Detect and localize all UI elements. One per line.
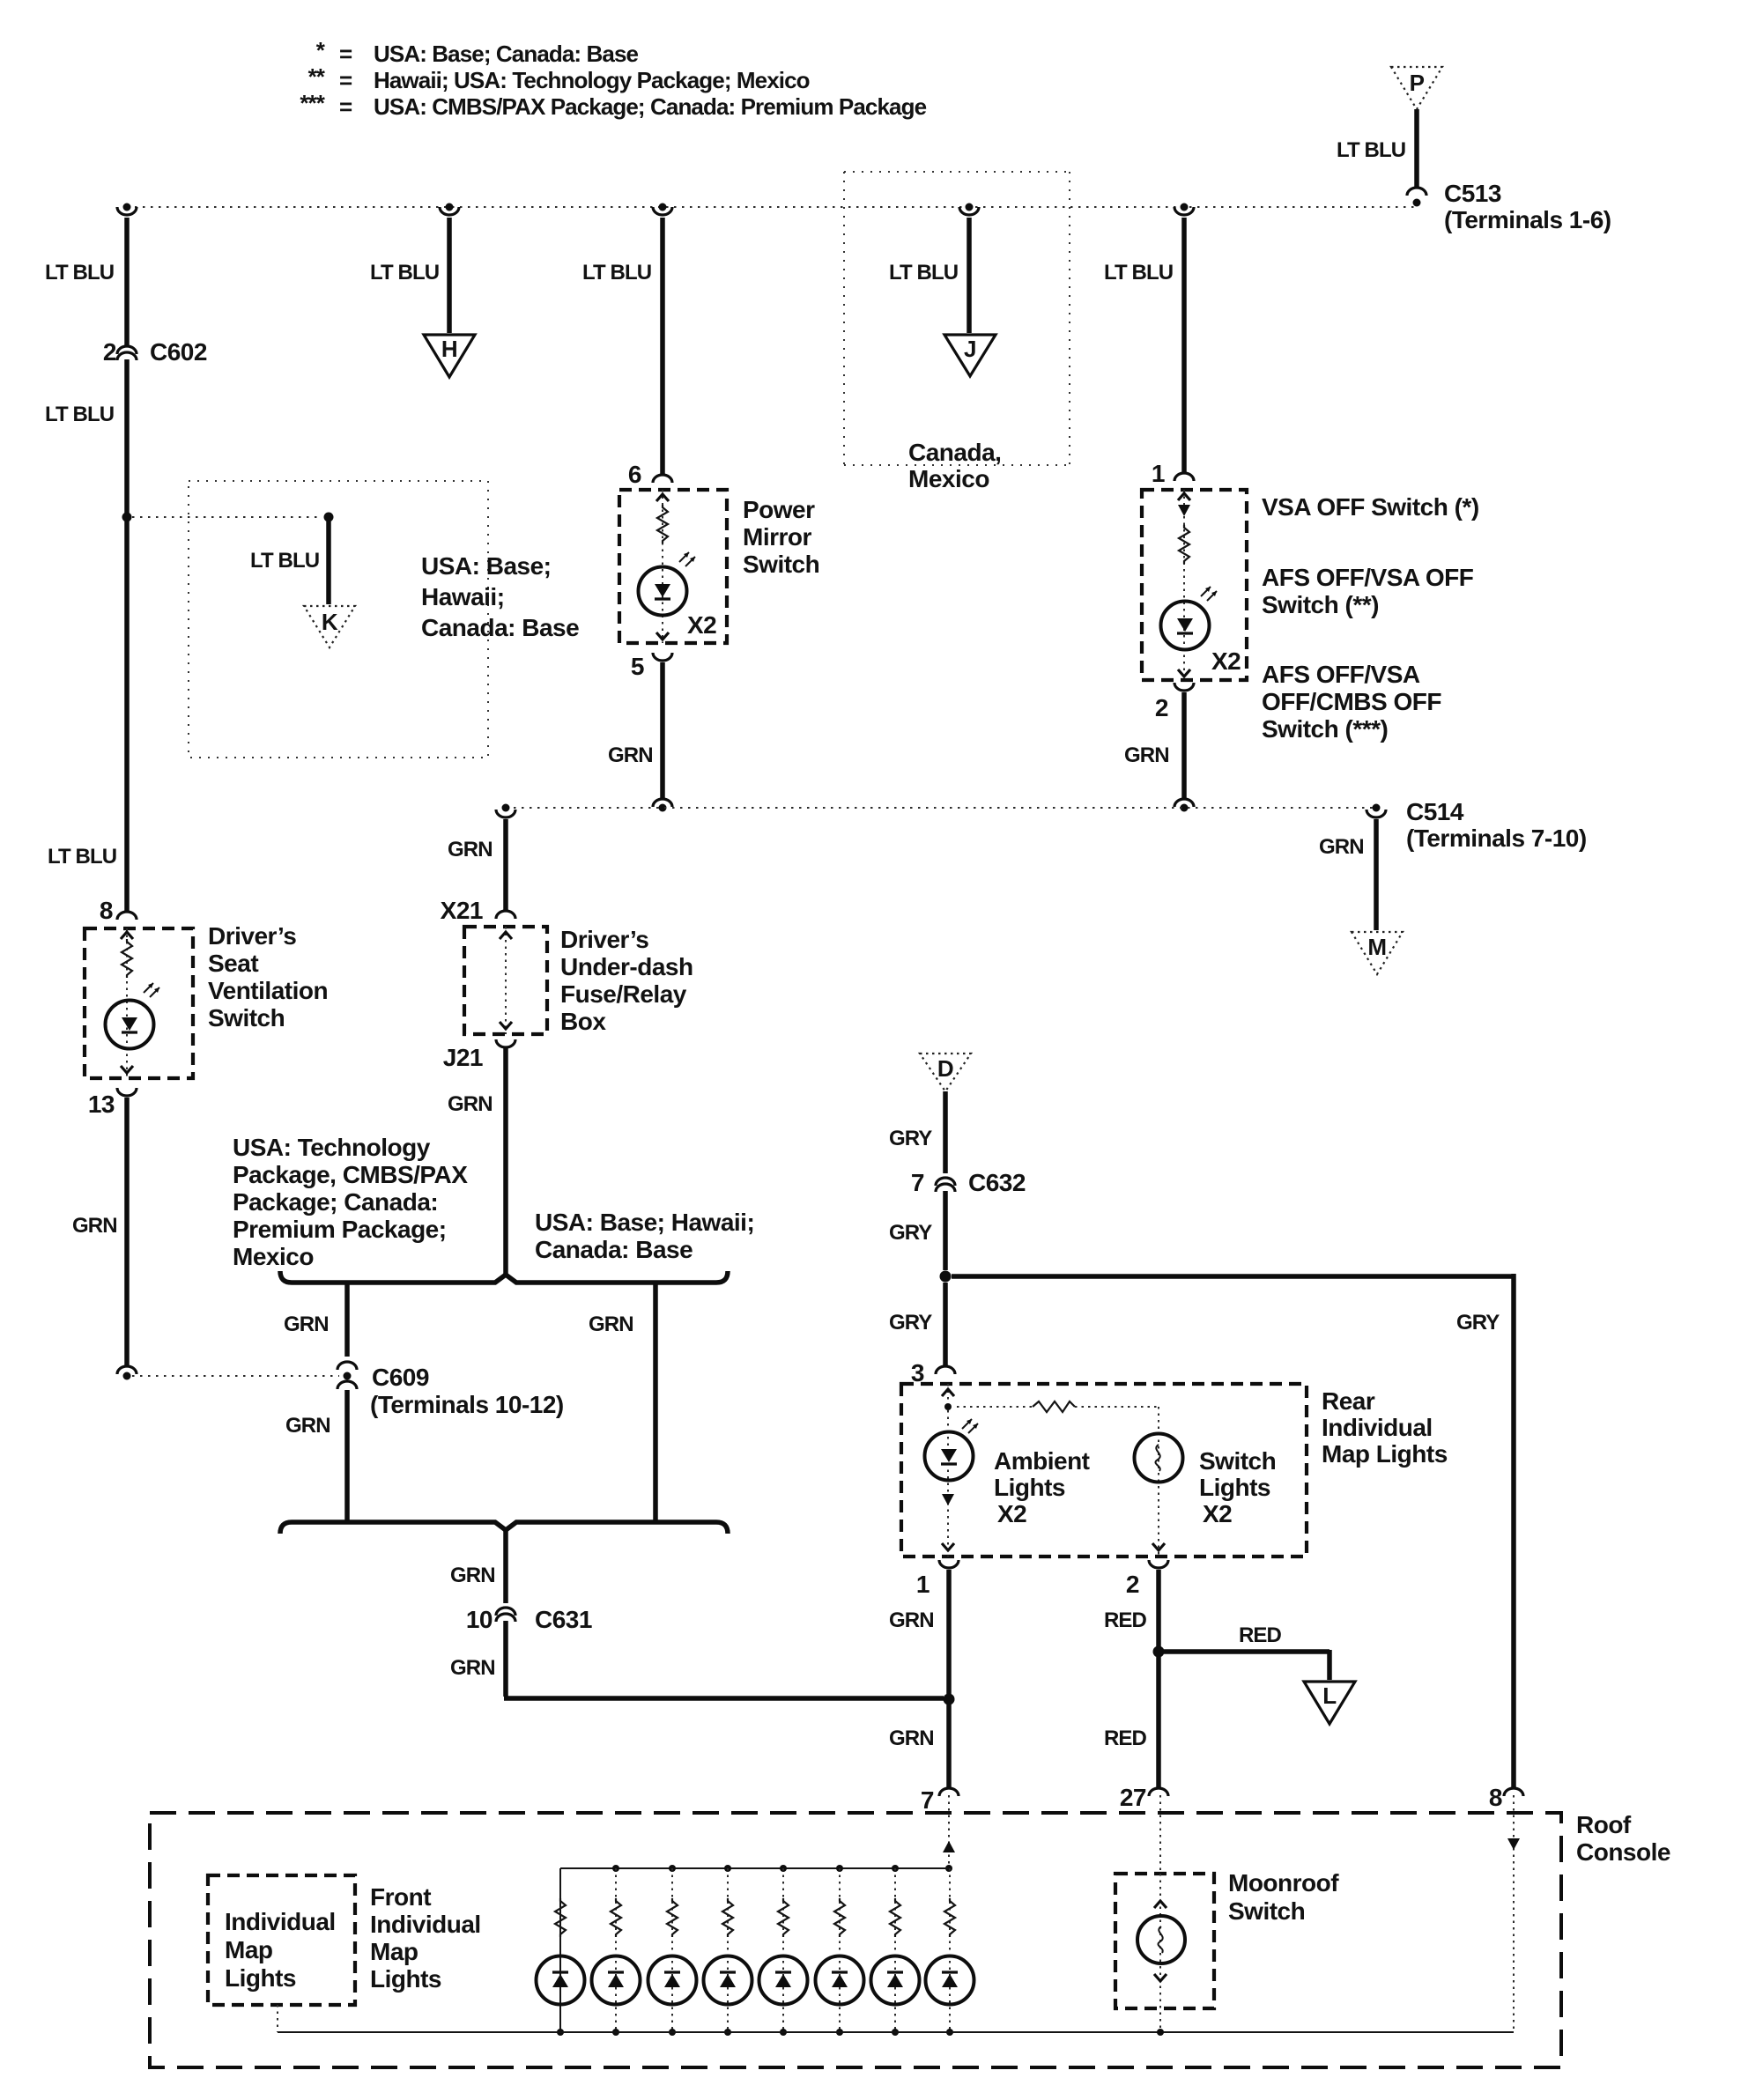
- svg-text:GRN: GRN: [889, 1727, 934, 1750]
- svg-text:AFS OFF/VSA: AFS OFF/VSA: [1262, 661, 1420, 688]
- ground J: [944, 335, 996, 376]
- svg-text:LT BLU: LT BLU: [1104, 261, 1173, 285]
- pin 27 of roof console: [1120, 1784, 1168, 1811]
- svg-text:GRY: GRY: [889, 1311, 932, 1335]
- svg-text:C632: C632: [968, 1169, 1026, 1196]
- svg-text:RED: RED: [1104, 1608, 1147, 1632]
- front map light LED 8 with resistor: [926, 1868, 974, 2036]
- svg-text:Switch: Switch: [1228, 1897, 1305, 1925]
- front map light LED 4 with resistor: [704, 1865, 752, 2036]
- svg-text:GRN: GRN: [72, 1214, 117, 1238]
- svg-text:LT BLU: LT BLU: [45, 403, 114, 426]
- node GRY junction: [940, 1271, 952, 1283]
- svg-text:10: 10: [466, 1606, 493, 1633]
- pin 1 of VSA OFF switch: [1152, 460, 1194, 487]
- svg-text:Package, CMBS/PAX: Package, CMBS/PAX: [233, 1161, 468, 1188]
- svg-text:Ambient: Ambient: [994, 1447, 1090, 1475]
- node tap at C513 terminal for C602 branch: [117, 203, 137, 216]
- svg-text:GRY: GRY: [1456, 1311, 1500, 1335]
- pin 13 of seat ventilation switch: [88, 1088, 137, 1118]
- wire LT BLU to VSA OFF switch pin 1: [1104, 218, 1184, 472]
- svg-text:Canada: Base: Canada: Base: [421, 614, 579, 641]
- option brace top: [280, 1271, 728, 1283]
- front map light LED 5 with resistor: [759, 1865, 808, 2036]
- wire LT BLU to ground J: [889, 218, 969, 333]
- node tap for ground H branch: [440, 203, 459, 216]
- svg-text:Lights: Lights: [370, 1965, 441, 1993]
- label Roof Console: [1576, 1811, 1670, 1866]
- wire LT BLU to power mirror switch pin 6: [582, 218, 663, 474]
- LED array bottom rail: [278, 2031, 1514, 2033]
- connector C632 pin 7: [911, 1169, 1026, 1196]
- svg-text:***: ***: [300, 90, 325, 116]
- wire GRN J21 to option brace: [448, 1047, 506, 1277]
- svg-text:J: J: [964, 336, 976, 362]
- label Ambient Lights X2: [994, 1447, 1090, 1527]
- connector C514 label: [1367, 798, 1587, 852]
- svg-text:Switch: Switch: [743, 551, 819, 578]
- svg-text:6: 6: [628, 461, 641, 488]
- connector tap at C514 bus: [1174, 799, 1194, 812]
- option region USA: Base; Hawaii; Canada: Base (dotted box): [189, 481, 579, 758]
- svg-text:Mexico: Mexico: [233, 1243, 314, 1270]
- svg-text:Mexico: Mexico: [908, 465, 989, 492]
- label Front Individual Map Lights: [370, 1883, 481, 1993]
- ground M: [1352, 932, 1403, 974]
- svg-text:GRN: GRN: [1124, 743, 1169, 767]
- svg-text:LT BLU: LT BLU: [48, 845, 116, 869]
- connector end at C609 link: [117, 1366, 137, 1380]
- front map light LED 7 with resistor: [871, 1865, 920, 2036]
- svg-text:GRY: GRY: [889, 1127, 932, 1150]
- node C514 interconnect dotted bus (terminals 7-10): [506, 807, 1376, 809]
- wire GRN junction to roof console pin 7: [889, 1703, 949, 1787]
- front map light LED 1 with resistor: [537, 1868, 585, 2036]
- svg-text:X2: X2: [1203, 1500, 1232, 1527]
- svg-text:X2: X2: [1211, 647, 1241, 675]
- svg-text:USA: Base; Hawaii;: USA: Base; Hawaii;: [535, 1209, 754, 1236]
- component Moonroof Switch: [1115, 1869, 1339, 2036]
- svg-text:GRN: GRN: [589, 1312, 633, 1336]
- svg-text:Map: Map: [225, 1936, 273, 1963]
- svg-text:GRN: GRN: [1319, 835, 1364, 859]
- node RED junction: [1153, 1646, 1165, 1658]
- svg-text:P: P: [1410, 70, 1425, 96]
- wire GRY ground D to C632: [889, 1091, 945, 1173]
- svg-text:X21: X21: [441, 897, 483, 924]
- option region Canada Mexico (dashed box): [844, 172, 1070, 492]
- svg-text:Driver’s: Driver’s: [560, 926, 648, 953]
- svg-text:Console: Console: [1576, 1838, 1670, 1866]
- pin X21 of under-dash fuse/relay box: [441, 897, 515, 924]
- svg-text:8: 8: [100, 897, 113, 924]
- node tap for ground J branch: [959, 203, 979, 216]
- svg-text:H: H: [441, 336, 457, 362]
- svg-text:Canada: Base: Canada: Base: [535, 1236, 693, 1263]
- svg-text:C514: C514: [1406, 798, 1464, 825]
- svg-text:(Terminals 10-12): (Terminals 10-12): [370, 1391, 564, 1418]
- svg-text:2: 2: [1126, 1571, 1139, 1598]
- svg-text:USA: Base; Canada: Base: USA: Base; Canada: Base: [374, 41, 639, 67]
- svg-text:Lights: Lights: [1199, 1474, 1270, 1501]
- svg-text:GRN: GRN: [450, 1564, 495, 1587]
- connector C602 pin 2: [103, 338, 207, 366]
- connector C609 (terminals 10-12): [337, 1362, 564, 1418]
- svg-text:Premium Package;: Premium Package;: [233, 1216, 447, 1243]
- component Driver's Under-dash Fuse/Relay Box: [464, 926, 693, 1035]
- svg-text:=: =: [339, 41, 352, 67]
- svg-text:D: D: [937, 1055, 953, 1082]
- node tap for power mirror branch: [653, 203, 672, 216]
- wire GRN brace to C631: [450, 1530, 506, 1603]
- svg-text:Individual: Individual: [225, 1908, 336, 1935]
- svg-text:5: 5: [631, 653, 644, 680]
- svg-text:X2: X2: [997, 1500, 1026, 1527]
- svg-text:AFS OFF/VSA OFF: AFS OFF/VSA OFF: [1262, 564, 1474, 591]
- svg-text:2: 2: [103, 338, 116, 366]
- component VSA OFF switch (illumination X2): [1142, 490, 1247, 680]
- label AFS OFF/VSA OFF Switch (**): [1262, 564, 1474, 618]
- wire LT BLU C602 to junction: [45, 359, 127, 514]
- svg-text:**: **: [308, 63, 326, 90]
- svg-text:13: 13: [88, 1091, 115, 1118]
- pin J21 of under-dash fuse/relay box: [443, 1039, 515, 1071]
- svg-text:Lights: Lights: [225, 1964, 296, 1992]
- dotted link to C609: [132, 1375, 339, 1377]
- wire GRN seat switch pin 13 down to C609 dotted link: [72, 1098, 127, 1365]
- svg-text:Driver’s: Driver’s: [208, 922, 296, 950]
- svg-text:Seat: Seat: [208, 950, 258, 977]
- svg-text:Hawaii;: Hawaii;: [421, 583, 505, 610]
- svg-text:Hawaii; USA: Technology Packag: Hawaii; USA: Technology Package; Mexico: [374, 67, 810, 93]
- ground L: [1304, 1682, 1355, 1724]
- svg-text:GRN: GRN: [889, 1608, 934, 1632]
- component Power Mirror Switch (illumination X2): [619, 490, 819, 643]
- wire GRN rear pin 1 to junction: [889, 1570, 949, 1696]
- svg-text:Fuse/Relay: Fuse/Relay: [560, 980, 687, 1008]
- svg-text:VSA OFF Switch (*): VSA OFF Switch (*): [1262, 493, 1479, 521]
- option brace bottom: [280, 1522, 728, 1534]
- wire GRN C514 to fuse box X21: [448, 819, 506, 910]
- label Rear Individual Map Lights: [1322, 1387, 1448, 1468]
- svg-text:X2: X2: [687, 611, 716, 639]
- svg-text:LT BLU: LT BLU: [250, 549, 319, 573]
- front map light LED 3 with resistor: [648, 1865, 697, 2036]
- LED array top rail: [560, 1867, 949, 1869]
- svg-text:7: 7: [921, 1786, 934, 1814]
- front map light LED 2 with resistor: [592, 1865, 641, 2036]
- component Roof Console (dashed enclosure): [150, 1813, 1561, 2067]
- svg-text:GRN: GRN: [448, 1092, 493, 1116]
- wire pin 8 into console to bottom rail: [1507, 1795, 1520, 2030]
- pin 1 of rear map lights: [916, 1560, 959, 1598]
- pin 7 of roof console: [921, 1786, 959, 1814]
- pin 8 of roof console: [1489, 1784, 1523, 1811]
- wire LT BLU from ground P to C513: [1337, 109, 1417, 188]
- ground D reference (feed): [920, 1054, 971, 1091]
- svg-text:LT BLU: LT BLU: [889, 261, 958, 285]
- wire GRN right option branch: [589, 1284, 655, 1520]
- svg-text:27: 27: [1120, 1784, 1146, 1811]
- pin 6 of power mirror switch: [628, 461, 672, 488]
- pin 5 of power mirror switch: [631, 653, 672, 680]
- wire RED junction to ground L: [1164, 1623, 1330, 1680]
- pin 3 of rear individual map lights: [911, 1359, 955, 1386]
- svg-text:=: =: [339, 93, 352, 120]
- svg-text:Map Lights: Map Lights: [1322, 1440, 1448, 1468]
- svg-text:Front: Front: [370, 1883, 431, 1911]
- svg-text:USA: CMBS/PAX Package; Canada:: USA: CMBS/PAX Package; Canada: Premium P…: [374, 93, 927, 120]
- svg-text:K: K: [322, 609, 338, 635]
- svg-text:=: =: [339, 67, 352, 93]
- component Rear Individual Map Lights: [901, 1384, 1307, 1557]
- svg-text:*: *: [316, 37, 326, 63]
- label AFS OFF/VSA OFF/CMBS OFF Switch (***): [1262, 661, 1441, 743]
- svg-text:USA: Base;: USA: Base;: [421, 552, 551, 580]
- node C513 interconnect dotted bus (terminals 1-6): [127, 206, 1417, 208]
- svg-text:LT BLU: LT BLU: [1337, 138, 1405, 162]
- ground P: [1391, 67, 1442, 109]
- wire GRN C609 to bottom brace: [285, 1390, 347, 1520]
- svg-text:Ventilation: Ventilation: [208, 977, 328, 1004]
- svg-text:C602: C602: [150, 338, 207, 366]
- svg-text:J21: J21: [443, 1044, 483, 1071]
- pin 2 of rear map lights: [1126, 1560, 1168, 1598]
- svg-text:GRN: GRN: [608, 743, 653, 767]
- svg-text:Box: Box: [560, 1008, 606, 1035]
- label USA: Technology Package, CMBS/PAX Package; Canada: Premium Package; Mexico: [233, 1134, 468, 1270]
- svg-text:(Terminals 1-6): (Terminals 1-6): [1444, 206, 1611, 233]
- node GRN junction with C631 run: [944, 1694, 955, 1705]
- svg-text:Map: Map: [370, 1938, 418, 1965]
- wire GRY junction down to rear map lights pin 3: [889, 1283, 945, 1365]
- node tap on C514 bus for under-dash fuse box: [496, 804, 515, 818]
- svg-text:2: 2: [1155, 694, 1168, 721]
- svg-text:OFF/CMBS OFF: OFF/CMBS OFF: [1262, 688, 1441, 715]
- label USA: Base; Hawaii; Canada: Base: [535, 1209, 754, 1263]
- ground K: [304, 606, 355, 647]
- node tap for VSA switch branch: [1174, 203, 1194, 216]
- connector tap at C514 bus: [653, 799, 672, 812]
- wire GRN brace to C609: [284, 1284, 347, 1357]
- pin 2 of VSA OFF switch: [1155, 683, 1194, 721]
- connector C631 pin 10: [466, 1606, 592, 1633]
- svg-text:LT BLU: LT BLU: [582, 261, 651, 285]
- wire pin 27 into console to moonroof switch: [1159, 1795, 1161, 1874]
- front map light LED 6 with resistor: [816, 1865, 864, 2036]
- svg-text:M: M: [1367, 934, 1386, 960]
- wire pin 7 into console to LED rail: [943, 1795, 955, 1872]
- svg-text:Switch (***): Switch (***): [1262, 715, 1388, 743]
- wire LT BLU C513 to C602: [45, 218, 127, 345]
- svg-text:Roof: Roof: [1576, 1811, 1632, 1838]
- wire GRN VSA pin 2 to C514 bus: [1124, 692, 1184, 798]
- wire GRY C632 to junction: [889, 1191, 945, 1270]
- svg-text:GRN: GRN: [448, 838, 493, 861]
- svg-text:7: 7: [911, 1169, 924, 1196]
- wire GRN power mirror pin 5 to C514 bus: [608, 662, 663, 798]
- svg-text:GRN: GRN: [284, 1312, 329, 1336]
- wire GRN C631 to roof console junction: [450, 1621, 944, 1698]
- svg-text:Switch (**): Switch (**): [1262, 591, 1379, 618]
- svg-text:(Terminals 7-10): (Terminals 7-10): [1406, 824, 1587, 852]
- wire LT BLU junction to seat switch pin 8: [48, 521, 127, 911]
- svg-text:Mirror: Mirror: [743, 523, 812, 551]
- svg-text:L: L: [1322, 1682, 1337, 1709]
- svg-text:RED: RED: [1104, 1727, 1147, 1750]
- svg-text:GRN: GRN: [450, 1656, 495, 1680]
- wire GRN C514 to ground M: [1319, 819, 1376, 930]
- label VSA OFF Switch (*): [1262, 493, 1479, 521]
- svg-text:LT BLU: LT BLU: [370, 261, 439, 285]
- svg-text:Lights: Lights: [994, 1474, 1065, 1501]
- svg-text:1: 1: [1152, 460, 1165, 487]
- svg-text:1: 1: [916, 1571, 930, 1598]
- svg-text:C609: C609: [372, 1364, 429, 1391]
- svg-text:Power: Power: [743, 496, 815, 523]
- svg-text:8: 8: [1489, 1784, 1502, 1811]
- ground H: [424, 335, 475, 377]
- label Switch Lights X2: [1199, 1447, 1276, 1527]
- svg-text:LT BLU: LT BLU: [45, 261, 114, 285]
- wire RED rear pin 2 to junction: [1104, 1570, 1159, 1647]
- svg-text:Canada,: Canada,: [908, 439, 1001, 466]
- svg-text:GRY: GRY: [889, 1221, 932, 1245]
- component Individual Map Lights (inner box): [208, 1875, 355, 2032]
- pin 8 of seat ventilation switch: [100, 897, 137, 924]
- connector C513 tap: [1407, 180, 1611, 233]
- svg-text:GRN: GRN: [285, 1414, 330, 1438]
- svg-text:Individual: Individual: [370, 1911, 481, 1938]
- svg-text:Switch: Switch: [208, 1004, 285, 1032]
- wire LT BLU to ground H: [370, 218, 449, 333]
- svg-text:C631: C631: [535, 1606, 592, 1633]
- node junction to ground K branch: [122, 513, 334, 522]
- wire RED junction to roof console pin 27: [1104, 1657, 1159, 1787]
- svg-text:C513: C513: [1444, 180, 1501, 207]
- svg-text:Individual: Individual: [1322, 1414, 1433, 1441]
- svg-text:Moonroof: Moonroof: [1228, 1869, 1339, 1897]
- wire GRY junction right and down to roof console pin 8: [952, 1274, 1514, 1787]
- svg-text:Package; Canada:: Package; Canada:: [233, 1188, 438, 1216]
- svg-text:Switch: Switch: [1199, 1447, 1276, 1475]
- legend asterisk notes: [300, 37, 926, 120]
- svg-text:Under-dash: Under-dash: [560, 953, 693, 980]
- component Driver's Seat Ventilation Switch: [85, 922, 328, 1078]
- svg-text:RED: RED: [1239, 1623, 1282, 1647]
- svg-text:USA: Technology: USA: Technology: [233, 1134, 431, 1161]
- svg-text:Rear: Rear: [1322, 1387, 1375, 1415]
- wire LT BLU stub to ground K: [250, 521, 329, 604]
